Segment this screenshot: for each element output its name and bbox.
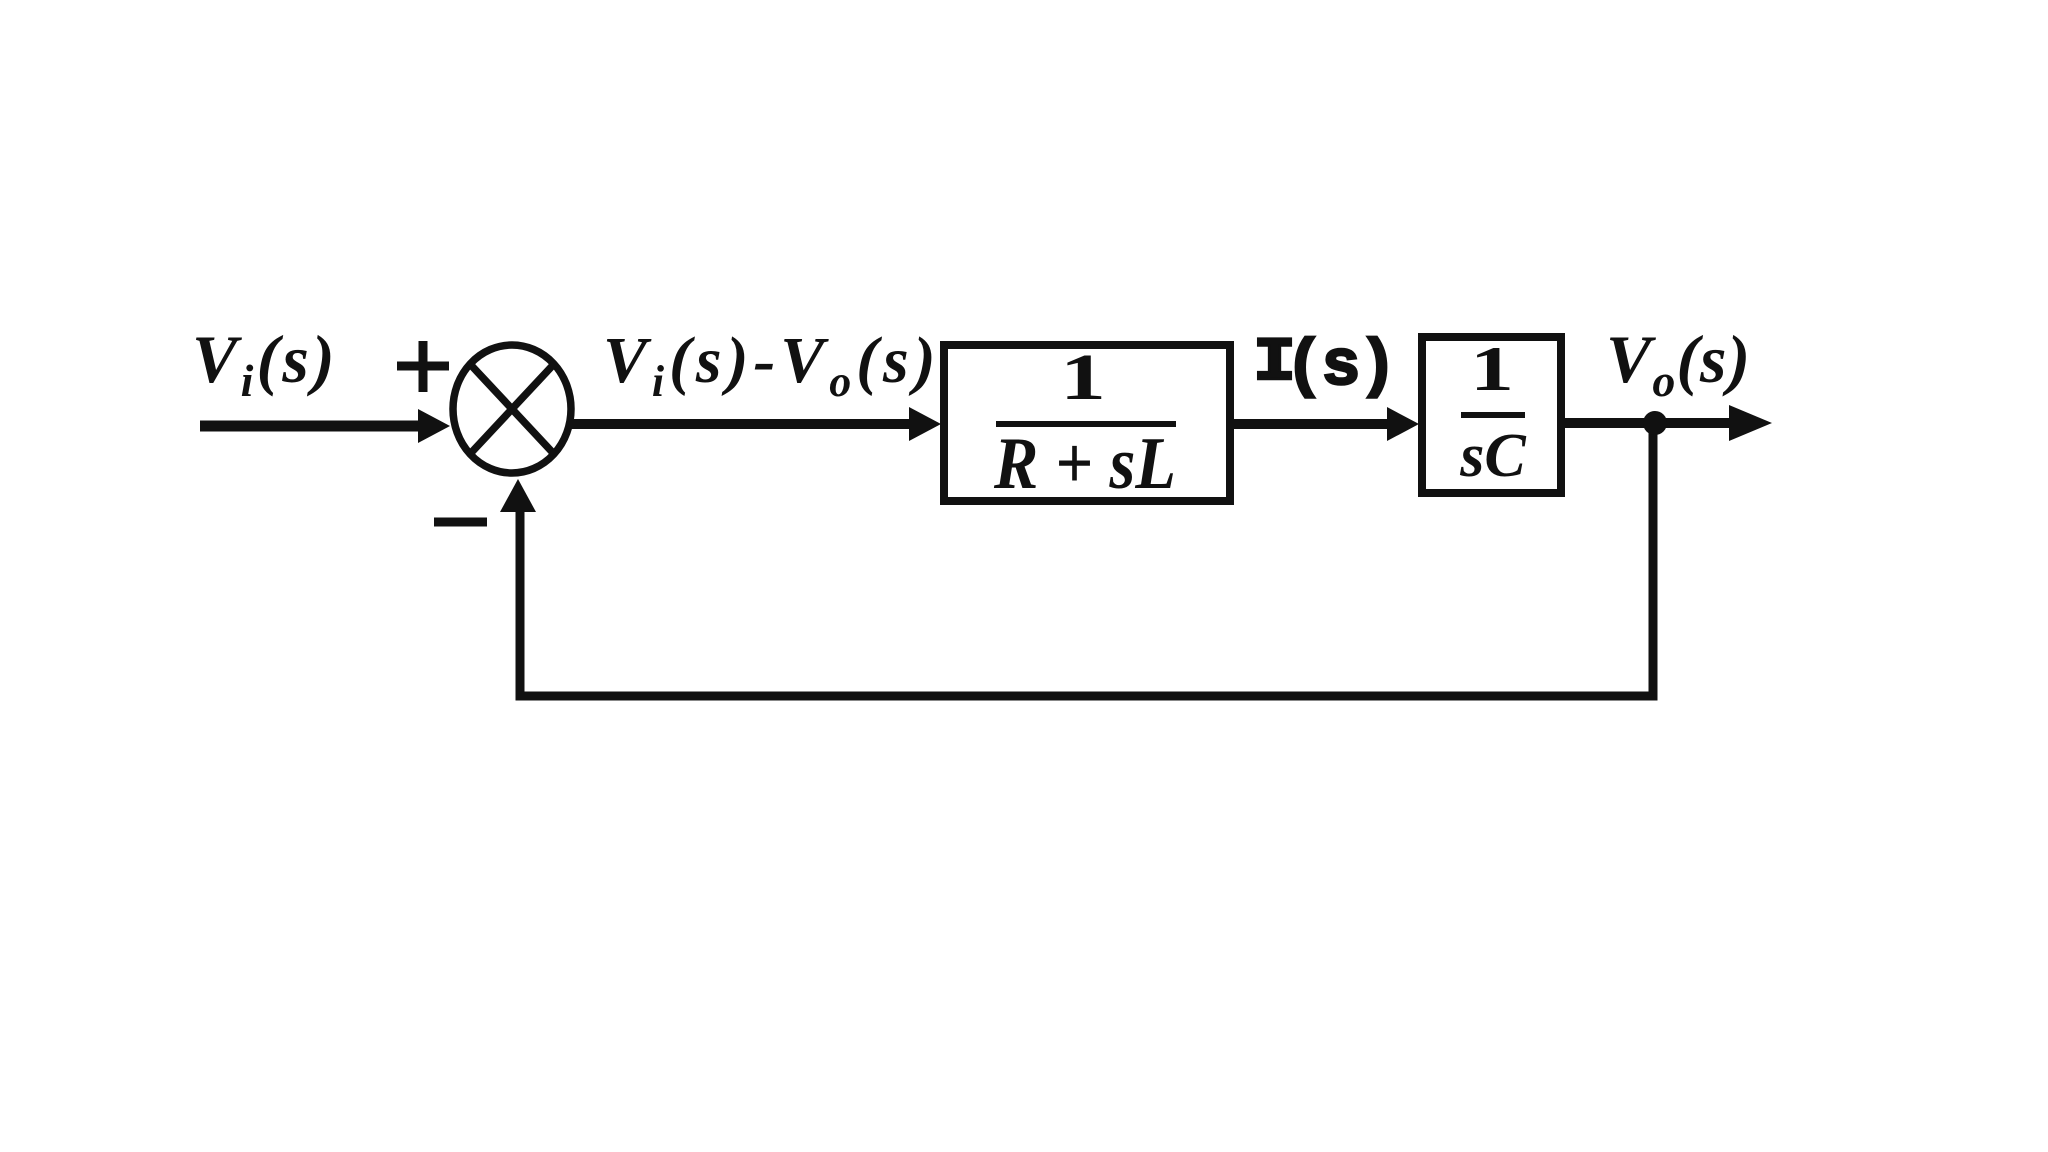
- svg-text:R + sL: R + sL: [993, 423, 1176, 505]
- svg-text:Vi(s): Vi(s): [192, 321, 338, 406]
- svg-text:1: 1: [1060, 341, 1106, 414]
- svg-text:(s): (s): [1285, 330, 1395, 404]
- svg-text:1: 1: [1470, 333, 1514, 404]
- svg-text:sC: sC: [1459, 422, 1526, 490]
- svg-text:Vo(s): Vo(s): [1606, 321, 1751, 406]
